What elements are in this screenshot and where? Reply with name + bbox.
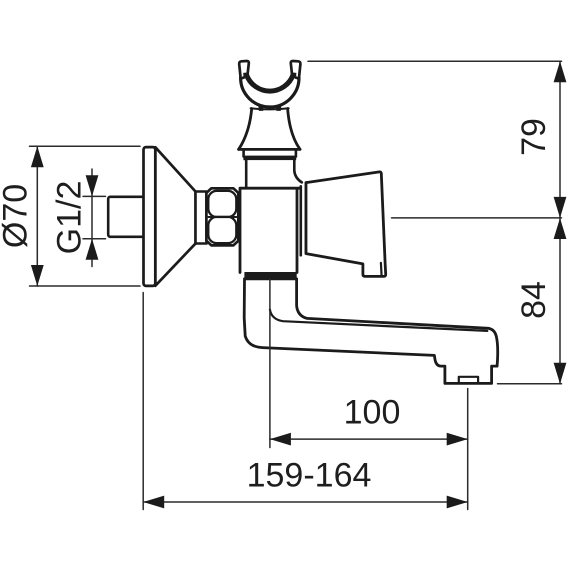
dim G1/2 line	[91, 169, 93, 267]
dim G1/2 bottom arrow	[86, 239, 99, 260]
holder left prong notch	[243, 72, 249, 78]
holder bell right foot	[276, 106, 281, 111]
dim Ø70 top arrow	[31, 146, 44, 167]
svg-text:Ø70: Ø70	[0, 184, 35, 248]
holder left prong	[239, 61, 249, 79]
dim 79 bottom arrow	[554, 197, 567, 218]
hex nut top facet	[208, 191, 236, 217]
dim Ø70 top extension line	[30, 145, 141, 147]
dim G1/2 bottom extension line	[83, 238, 106, 240]
neck collar ring	[244, 150, 296, 157]
dim Ø70 bottom arrow	[31, 265, 44, 286]
wall flange plate	[144, 147, 156, 286]
dim 84 top arrow	[554, 218, 567, 239]
dim 159-164 right arrow	[447, 496, 468, 509]
valve body	[240, 188, 297, 273]
holder bell left foot	[258, 106, 263, 111]
wall flange cone	[155, 147, 195, 286]
spout bottom extension line	[498, 383, 562, 385]
dim G1/2 top extension line	[83, 195, 106, 197]
hex nut outline	[206, 188, 238, 245]
dim 100-159 right extension line	[467, 389, 469, 510]
dim G1/2 top arrow	[86, 175, 99, 196]
svg-text:100: 100	[344, 394, 401, 432]
body bottom thick ring	[244, 272, 296, 278]
connection collar	[196, 192, 207, 244]
svg-text:79: 79	[515, 118, 553, 156]
dim Ø70 bottom extension line	[30, 285, 141, 287]
holder right prong notch	[290, 72, 296, 78]
holder right prong	[291, 61, 301, 79]
dim Ø70 line	[36, 146, 38, 286]
handle cone	[306, 172, 386, 277]
hex nut bottom facet	[208, 217, 236, 243]
shower holder crescent outer arc	[241, 78, 299, 107]
holder bell base	[239, 109, 300, 150]
dim 159-164 left arrow	[143, 496, 164, 509]
dim 159-164 left extension line	[142, 293, 144, 510]
dim 100 left arrow	[270, 433, 291, 446]
upper neck	[246, 160, 294, 188]
svg-text:159-164: 159-164	[247, 457, 372, 495]
shower holder crescent inner arc	[246, 75, 293, 92]
handle axis extension line	[392, 217, 562, 219]
dim 100 right arrow	[447, 433, 468, 446]
handle skirt	[301, 183, 306, 256]
aerator insert	[459, 377, 478, 383]
inlet pipe G1/2	[108, 197, 145, 237]
spout outline	[244, 279, 498, 384]
dim 100 left extension line	[269, 279, 271, 448]
holder top extension line	[308, 60, 562, 62]
dim 79-84 line	[559, 61, 561, 384]
neck collar thick band	[243, 156, 296, 161]
svg-text:84: 84	[515, 281, 553, 319]
dim 84 bottom arrow	[554, 363, 567, 384]
dim 79 top arrow	[554, 61, 567, 82]
bell bottom edge	[239, 148, 300, 151]
spout top edge second line	[270, 310, 487, 331]
dim 100 line	[270, 438, 468, 440]
handle tab inner line	[380, 263, 383, 276]
dim 159-164 line	[143, 501, 468, 503]
svg-text:G1/2: G1/2	[51, 181, 89, 255]
